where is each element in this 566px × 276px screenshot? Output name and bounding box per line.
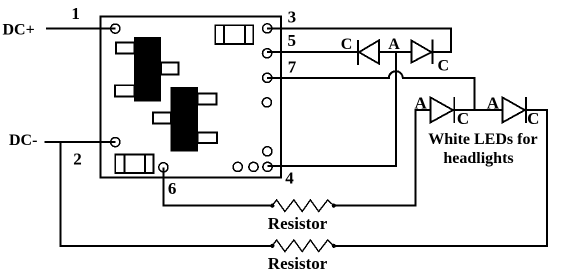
svg-text:A: A xyxy=(487,93,500,112)
svg-text:C: C xyxy=(457,109,469,128)
svg-text:C: C xyxy=(527,109,539,128)
svg-text:7: 7 xyxy=(288,58,297,77)
svg-text:4: 4 xyxy=(285,169,294,188)
svg-text:DC-: DC- xyxy=(9,132,37,149)
svg-text:C: C xyxy=(341,36,353,53)
svg-text:A: A xyxy=(415,94,428,113)
svg-text:2: 2 xyxy=(73,150,82,169)
svg-text:DC+: DC+ xyxy=(3,21,35,38)
svg-text:C: C xyxy=(438,58,450,75)
svg-text:1: 1 xyxy=(71,4,80,23)
svg-text:White LEDs for: White LEDs for xyxy=(428,131,537,148)
svg-text:5: 5 xyxy=(288,31,297,50)
svg-text:3: 3 xyxy=(288,8,297,27)
svg-text:A: A xyxy=(388,36,400,53)
svg-text:Resistor: Resistor xyxy=(268,214,328,233)
svg-text:Resistor: Resistor xyxy=(268,254,328,273)
svg-text:headlights: headlights xyxy=(443,150,513,167)
svg-text:6: 6 xyxy=(168,179,177,198)
